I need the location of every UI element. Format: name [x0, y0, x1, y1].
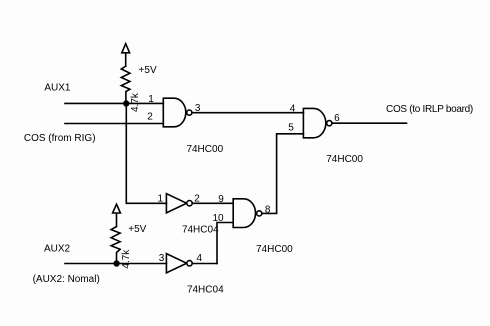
resistor R2 4.7k: [111, 227, 120, 264]
node AUX1 junction: [124, 101, 129, 106]
svg-text:74HC04: 74HC04: [182, 224, 219, 235]
svg-text:10: 10: [212, 213, 224, 224]
svg-text:2: 2: [194, 193, 200, 204]
svg-text:74HC04: 74HC04: [187, 285, 224, 296]
svg-text:AUX2: AUX2: [44, 243, 71, 254]
svg-text:9: 9: [218, 194, 224, 205]
svg-text:74HC00: 74HC00: [326, 154, 363, 165]
svg-text:4.7k: 4.7k: [130, 92, 141, 112]
svg-text:1: 1: [148, 94, 154, 105]
svg-text:74HC00: 74HC00: [256, 244, 293, 255]
power +5V arrow (AUX1 pull-up): [122, 44, 130, 66]
wire U1A pin3 to U1B pin4: [192, 112, 303, 114]
svg-text:1: 1: [158, 193, 164, 204]
wire junction to inverter U2A input: [126, 104, 166, 204]
resistor R1 4.7k: [121, 66, 130, 103]
wire COS output: [332, 122, 407, 124]
svg-text:74HC00: 74HC00: [186, 144, 223, 155]
svg-text:(AUX2: Nomal): (AUX2: Nomal): [33, 274, 100, 285]
wire U1C pin10 input: [217, 223, 233, 264]
wire U2A pin2 to U1C pin9: [192, 202, 233, 204]
svg-text:8: 8: [265, 205, 271, 216]
svg-text:3: 3: [159, 253, 165, 264]
wire AUX2 input: [65, 263, 166, 265]
svg-text:AUX1: AUX1: [44, 83, 71, 94]
op-amp nand gate U1A 74HC00: [163, 98, 186, 127]
power +5V arrow (AUX2 pull-up): [113, 204, 121, 226]
wire U2B pin4 output: [192, 263, 217, 265]
node AUX2 junction: [114, 261, 119, 266]
svg-text:4: 4: [197, 253, 203, 264]
svg-text:3: 3: [195, 103, 201, 114]
svg-text:4.7k: 4.7k: [121, 249, 132, 269]
svg-text:+5V: +5V: [139, 65, 157, 76]
svg-text:4: 4: [290, 103, 296, 114]
inverter U2A 74HC04: [166, 194, 186, 213]
wire U1C pin8 to U1B pin5: [262, 134, 304, 214]
nand gate U1C 74HC00: [233, 199, 255, 228]
svg-text:+5V: +5V: [128, 224, 146, 235]
svg-text:6: 6: [334, 113, 340, 124]
wire AUX1 input: [65, 102, 163, 104]
wire COS input: [65, 123, 163, 125]
svg-text:COS (to IRLP board): COS (to IRLP board): [386, 104, 473, 115]
inverter U2B 74HC04: [166, 254, 186, 273]
svg-text:COS (from RIG): COS (from RIG): [24, 133, 96, 144]
nand gate U1B 74HC00 (output): [303, 108, 325, 137]
svg-text:2: 2: [147, 112, 153, 123]
svg-text:5: 5: [288, 122, 294, 133]
